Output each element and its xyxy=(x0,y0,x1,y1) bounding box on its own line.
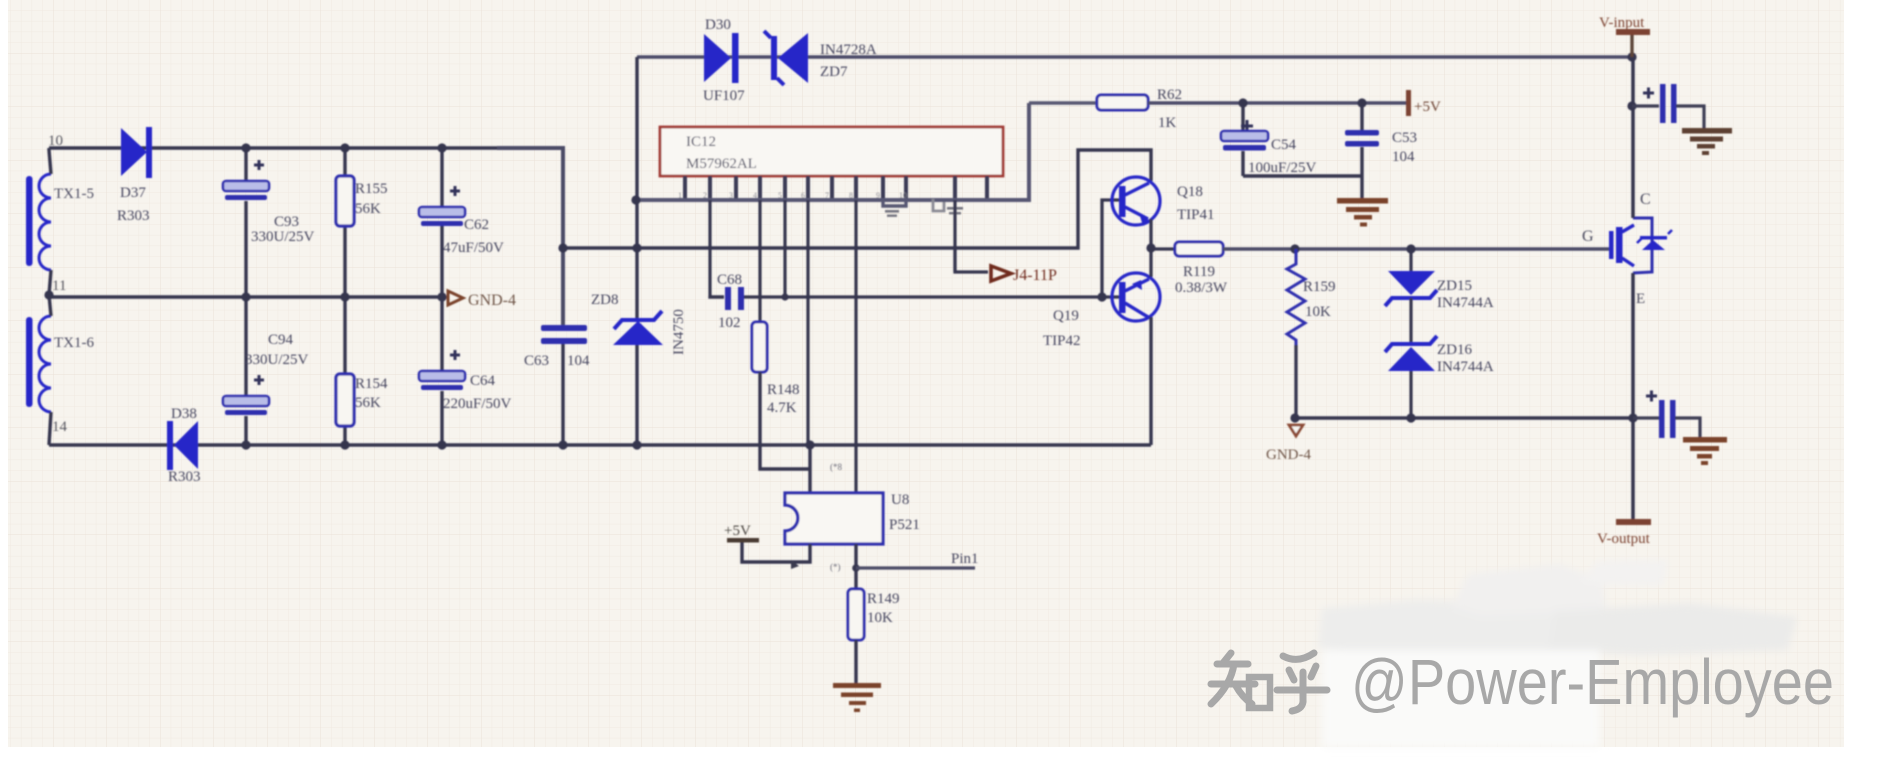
label R119 xyxy=(1183,264,1215,280)
wire winding join stub xyxy=(49,270,51,316)
svg-text:U8: U8 xyxy=(891,492,909,508)
ground R149 xyxy=(833,683,881,712)
label +5V xyxy=(1414,99,1441,115)
capacitor C63 xyxy=(541,325,587,344)
svg-text:+5V: +5V xyxy=(1414,99,1441,115)
node R159 gnd xyxy=(1290,413,1299,422)
label D38 xyxy=(171,406,197,422)
power +5V U8 bar xyxy=(727,538,759,543)
label R149 xyxy=(867,591,900,607)
wire C54 gnd link xyxy=(1243,174,1362,177)
svg-text:GND-4: GND-4 xyxy=(468,292,516,309)
node R155 top xyxy=(340,143,349,152)
svg-text:GND-4: GND-4 xyxy=(1266,447,1311,463)
pin label 10 xyxy=(48,133,63,149)
svg-text:D37: D37 xyxy=(120,185,146,201)
svg-text:R303: R303 xyxy=(117,208,150,224)
svg-text:TX1-6: TX1-6 xyxy=(54,335,94,351)
svg-text:R159: R159 xyxy=(1303,279,1336,295)
label C63 value xyxy=(567,353,590,369)
svg-text:330U/25V: 330U/25V xyxy=(245,352,309,368)
label ZD16 xyxy=(1437,342,1472,358)
label IGBT G xyxy=(1582,228,1594,245)
watermark background blobs xyxy=(1318,560,1797,748)
transformer TX1 core xyxy=(26,176,33,407)
wire pin8 drop xyxy=(854,200,857,493)
svg-text:14: 14 xyxy=(52,419,68,435)
svg-text:C53: C53 xyxy=(1392,130,1417,146)
wire ZD15 stub xyxy=(1409,249,1412,271)
wire +5V to U8 xyxy=(742,542,810,562)
wire pin4 drop xyxy=(758,200,761,322)
label ZD15 IN4744A xyxy=(1437,295,1494,311)
zener ZD7 xyxy=(764,31,808,85)
wire R154 branch xyxy=(343,297,346,445)
svg-text:ZD7: ZD7 xyxy=(820,64,848,80)
label +5V U8 xyxy=(724,523,751,539)
diode D30 xyxy=(704,33,739,83)
label Q19 xyxy=(1053,308,1079,324)
svg-text:IN4750: IN4750 xyxy=(671,309,687,355)
svg-text:C54: C54 xyxy=(1271,137,1297,153)
node C53 top xyxy=(1357,98,1366,107)
wire C93 branch xyxy=(244,148,247,297)
label C62 xyxy=(464,217,489,233)
svg-text:IN4728A: IN4728A xyxy=(820,42,877,58)
node U8 pin1 bus xyxy=(805,440,814,449)
net label GND-4 arrow xyxy=(448,291,516,309)
svg-text:C: C xyxy=(1640,191,1651,208)
svg-text:10K: 10K xyxy=(1305,304,1331,320)
svg-text:D30: D30 xyxy=(705,17,731,33)
diode IGBT freewheel xyxy=(1637,230,1672,250)
wire x637 drop xyxy=(635,57,638,200)
wire top bus y57 xyxy=(637,55,1632,59)
IC12 pin9-10 bracket xyxy=(883,200,906,217)
svg-text:(*): (*) xyxy=(830,562,841,572)
svg-text:C64: C64 xyxy=(470,373,496,389)
node pin5 base net xyxy=(781,293,788,300)
svg-text:104: 104 xyxy=(1392,149,1415,165)
svg-text:R303: R303 xyxy=(168,469,201,485)
wire J4-11P stub xyxy=(955,248,988,272)
label R159 value xyxy=(1305,304,1331,320)
label C64 value xyxy=(443,396,512,412)
label R62 value xyxy=(1158,115,1177,131)
IC12 nc mark xyxy=(933,199,963,214)
wire pin5 drop xyxy=(783,200,786,297)
svg-text:M57962AL: M57962AL xyxy=(686,156,757,172)
wire ZD15 ZD16 link xyxy=(1409,298,1412,344)
label C53 xyxy=(1392,130,1417,146)
node Pin1 junction xyxy=(852,564,860,572)
svg-text:Pin1: Pin1 xyxy=(951,551,979,567)
svg-text:TIP42: TIP42 xyxy=(1043,333,1081,349)
label C68 xyxy=(717,272,742,288)
wire pin6 drop xyxy=(806,200,809,445)
node R154 bottom xyxy=(340,440,349,449)
wire C62 branch xyxy=(440,148,443,297)
svg-text:D38: D38 xyxy=(171,406,197,422)
node C94 bottom xyxy=(241,440,250,449)
node emitter out xyxy=(1628,413,1637,422)
svg-text:R62: R62 xyxy=(1157,87,1182,103)
label R62 xyxy=(1157,87,1182,103)
zener ZD8 xyxy=(613,311,663,345)
svg-text:R154: R154 xyxy=(355,376,388,392)
wire top rail y148 xyxy=(49,146,563,150)
winding TX1-5 xyxy=(39,174,51,270)
svg-text:R155: R155 xyxy=(355,181,388,197)
watermark 知 xyxy=(1211,653,1270,708)
zener ZD15 xyxy=(1385,271,1437,306)
resistor R148 xyxy=(752,322,767,372)
label Q18 xyxy=(1177,184,1203,200)
wire C94 branch xyxy=(244,297,247,445)
wire R148 to U8 xyxy=(760,372,810,469)
svg-text:UF107: UF107 xyxy=(703,88,745,104)
node C93 bottom xyxy=(241,292,250,301)
svg-text:@Power-Employee: @Power-Employee xyxy=(1351,646,1834,718)
node Vinput junction xyxy=(1627,52,1636,61)
wire rail corner x563 xyxy=(497,148,563,329)
label R148 value xyxy=(767,400,797,416)
svg-text:330U/25V: 330U/25V xyxy=(251,229,315,245)
transistor Q18 xyxy=(1112,177,1160,226)
IC U12 box xyxy=(660,127,1003,176)
label R149 value xyxy=(867,610,893,626)
label ZD7 xyxy=(820,64,848,80)
label C54 value xyxy=(1248,160,1317,176)
resistor R154 xyxy=(336,374,354,426)
node C63 bottom xyxy=(558,440,567,449)
label C93 xyxy=(274,214,299,230)
wire C53 branch xyxy=(1360,103,1363,198)
label C93 value xyxy=(251,229,315,245)
wire R155 branch xyxy=(343,148,346,297)
power +5V bar xyxy=(1406,90,1411,116)
label Q19 TIP42 xyxy=(1043,333,1081,349)
label Q18 TIP41 xyxy=(1177,207,1215,223)
node C64 bottom xyxy=(437,440,446,449)
node emitter junction xyxy=(1146,243,1155,252)
svg-text:104: 104 xyxy=(567,353,590,369)
svg-text:ZD15: ZD15 xyxy=(1437,278,1472,294)
wire middle GND bus y297 xyxy=(49,295,443,298)
label D30 xyxy=(705,17,731,33)
capacitor C93 xyxy=(223,160,269,200)
label C94 value xyxy=(245,352,309,368)
winding TX1-6 xyxy=(39,316,51,412)
node R159 top xyxy=(1290,244,1299,253)
label R155 xyxy=(355,181,388,197)
svg-text:C68: C68 xyxy=(717,272,742,288)
node ZD16 gnd xyxy=(1406,413,1415,422)
svg-text:C62: C62 xyxy=(464,217,489,233)
svg-text:C93: C93 xyxy=(274,214,299,230)
svg-text:100uF/25V: 100uF/25V xyxy=(1248,160,1317,176)
node C93 top xyxy=(241,143,250,152)
resistor R149 xyxy=(848,589,864,640)
wire ZD16 bottom xyxy=(1409,371,1412,418)
svg-text:47uF/50V: 47uF/50V xyxy=(443,240,504,256)
label C68 value xyxy=(718,315,741,331)
ground output cap xyxy=(1683,437,1727,465)
label R154 value xyxy=(355,395,381,411)
svg-text:G: G xyxy=(1582,228,1594,245)
label ZD7 IN4728A xyxy=(820,42,877,58)
label ZD8 IN4750 xyxy=(671,309,687,355)
label TX1-5 xyxy=(54,186,94,202)
wire C63 lower xyxy=(561,343,564,445)
wire gate clamp bus xyxy=(1295,416,1633,419)
wire R119 left xyxy=(1151,247,1175,250)
svg-text:V-output: V-output xyxy=(1597,531,1651,547)
svg-text:IC12: IC12 xyxy=(686,134,716,150)
diode D38 xyxy=(167,421,198,470)
capacitor C68 xyxy=(725,287,744,310)
diode D37 xyxy=(121,127,152,178)
label R155 value xyxy=(355,201,381,217)
power V-input xyxy=(1599,15,1650,57)
svg-text:R119: R119 xyxy=(1183,264,1215,280)
label D38 R303 xyxy=(168,469,201,485)
pin label 11 xyxy=(52,278,66,294)
ground C53C54 xyxy=(1337,198,1388,227)
label M57962AL xyxy=(686,156,757,172)
capacitor C54 xyxy=(1221,120,1268,151)
node C54 top xyxy=(1238,98,1247,107)
wire cap branch xyxy=(1632,104,1659,107)
label C64 xyxy=(470,373,496,389)
wire U8 pin1 xyxy=(808,445,811,493)
U8 pin marks xyxy=(791,462,842,572)
pin label 14 xyxy=(52,419,68,435)
watermark 乎 xyxy=(1277,653,1327,711)
wire R62 feed xyxy=(1029,101,1097,105)
node R155 bottom xyxy=(340,292,349,301)
capacitor C64 xyxy=(419,350,465,390)
resistor R159 xyxy=(1287,249,1305,345)
label D30 UF107 xyxy=(703,88,745,104)
label R154 xyxy=(355,376,388,392)
wire U8 out xyxy=(854,544,857,589)
wire C64 branch xyxy=(440,297,443,445)
zener ZD16 xyxy=(1385,336,1437,371)
wire top rail left stub xyxy=(49,148,51,174)
resistor R119 xyxy=(1175,242,1223,256)
label C94 xyxy=(268,332,294,348)
capacitor C62 xyxy=(419,186,465,226)
label ZD8 xyxy=(591,292,619,308)
wire Q19 emitter xyxy=(1149,248,1152,277)
node ZD8 bottom xyxy=(632,440,641,449)
svg-text:V-input: V-input xyxy=(1599,15,1645,31)
wire R159 bottom xyxy=(1294,345,1297,418)
node ZD15 top xyxy=(1406,244,1415,253)
wire base link xyxy=(1102,200,1119,297)
svg-text:4.7K: 4.7K xyxy=(767,400,797,416)
wire Pin1 xyxy=(856,566,975,569)
svg-text:E: E xyxy=(1636,291,1645,307)
label U8 P521 xyxy=(889,517,920,533)
wire bottom bus y445 xyxy=(49,443,1151,447)
svg-text:C94: C94 xyxy=(268,332,294,348)
svg-text:220uF/50V: 220uF/50V xyxy=(443,396,512,412)
capacitor C94 xyxy=(223,375,269,415)
label C54 xyxy=(1271,137,1297,153)
svg-text:ZD16: ZD16 xyxy=(1437,342,1472,358)
resistor R62 xyxy=(1097,95,1148,110)
IGBT Q20 xyxy=(1609,218,1652,273)
svg-text:TIP41: TIP41 xyxy=(1177,207,1215,223)
label R148 xyxy=(767,382,800,398)
wire base net y297 xyxy=(744,295,1119,298)
node C62 bottom xyxy=(437,292,446,301)
resistor R155 xyxy=(336,176,354,226)
label R119 value xyxy=(1175,280,1228,296)
node rail x563 y248 xyxy=(558,243,567,252)
svg-text:IN4744A: IN4744A xyxy=(1437,295,1494,311)
node transformer centre tap xyxy=(44,290,53,299)
wire C68 left corner xyxy=(710,296,724,297)
label U8 xyxy=(891,492,909,508)
power V-output xyxy=(1597,519,1651,547)
svg-text:ZD8: ZD8 xyxy=(591,292,619,308)
svg-text:(*8: (*8 xyxy=(830,462,842,472)
svg-text:Q19: Q19 xyxy=(1053,308,1079,324)
IC12 pin stubs xyxy=(685,176,987,200)
svg-text:TX1-5: TX1-5 xyxy=(54,186,94,202)
IC12 pin numbers xyxy=(678,191,907,200)
svg-text:R149: R149 xyxy=(867,591,900,607)
label TX1-6 xyxy=(54,335,94,351)
svg-text:IN4744A: IN4744A xyxy=(1437,359,1494,375)
svg-text:102: 102 xyxy=(718,315,741,331)
wire gate line xyxy=(1223,247,1610,250)
svg-text:10K: 10K xyxy=(867,610,893,626)
wire cap to gnd xyxy=(1676,106,1704,128)
wire pin bus y200 xyxy=(636,103,1029,200)
node pin bus left xyxy=(631,195,640,204)
label C53 value xyxy=(1392,149,1415,165)
svg-text:C63: C63 xyxy=(524,353,549,369)
svg-text:56K: 56K xyxy=(355,395,381,411)
label IGBT E xyxy=(1636,291,1645,307)
wire Q19 collector xyxy=(1149,317,1152,445)
wire driver rail y248 xyxy=(563,150,1151,248)
wire bottom stub xyxy=(49,412,51,445)
capacitor C input xyxy=(1643,84,1677,123)
svg-text:J4-11P: J4-11P xyxy=(1013,267,1057,284)
label D37 R303 xyxy=(117,208,150,224)
net label GND-4 right xyxy=(1266,425,1311,463)
node base vertical xyxy=(1097,292,1106,301)
svg-text:R148: R148 xyxy=(767,382,800,398)
node C62 top xyxy=(437,143,446,152)
label IC12 xyxy=(686,134,716,150)
wire output cap link xyxy=(1633,418,1700,437)
wire pin11 drop xyxy=(953,200,956,272)
node ZD8 top xyxy=(632,243,641,252)
label Pin1 xyxy=(951,551,979,567)
svg-text:P521: P521 xyxy=(889,517,920,533)
label C63 xyxy=(524,353,549,369)
label C62 value xyxy=(443,240,504,256)
transistor Q19 xyxy=(1112,273,1160,321)
svg-text:11: 11 xyxy=(52,278,66,294)
wire Q18 emitter xyxy=(1149,219,1152,248)
capacitor C53 xyxy=(1345,130,1379,147)
svg-text:1K: 1K xyxy=(1158,115,1177,131)
svg-text:Q18: Q18 xyxy=(1177,184,1203,200)
label D37 xyxy=(120,185,146,201)
ground input cap xyxy=(1682,128,1732,155)
svg-text:56K: 56K xyxy=(355,201,381,217)
wire pin2 drop xyxy=(708,200,711,296)
IC U8 box xyxy=(785,493,883,544)
wire R149 to gnd xyxy=(854,640,857,683)
svg-text:0.38/3W: 0.38/3W xyxy=(1175,280,1228,296)
label R159 xyxy=(1303,279,1336,295)
label ZD16 IN4744A xyxy=(1437,359,1494,375)
wire C54 branch xyxy=(1241,103,1244,176)
label IGBT C xyxy=(1640,191,1651,208)
capacitor C output xyxy=(1646,391,1676,439)
wire IGBT collector xyxy=(1631,57,1635,218)
label ZD15 xyxy=(1437,278,1472,294)
wire IGBT emitter xyxy=(1631,273,1635,519)
svg-text:+5V: +5V xyxy=(724,523,751,539)
wire +5V rail xyxy=(1148,101,1406,104)
net label J4-11P xyxy=(991,266,1057,284)
node cap branch xyxy=(1627,101,1636,110)
wire ZD8 branch xyxy=(635,200,638,445)
